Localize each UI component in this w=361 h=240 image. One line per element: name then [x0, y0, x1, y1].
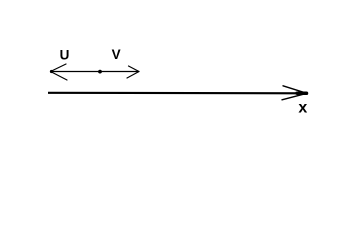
- right arrowhead: [127, 66, 139, 78]
- double-headed arrow U-V shaft: [51, 71, 140, 73]
- svg-text:x: x: [298, 99, 307, 116]
- x-axis line: [48, 92, 307, 95]
- x-axis arrowhead: [282, 86, 307, 100]
- left arrowhead: [50, 64, 67, 80]
- svg-text:U: U: [60, 47, 70, 62]
- svg-text:V: V: [112, 47, 121, 62]
- midpoint dot: [98, 70, 102, 74]
